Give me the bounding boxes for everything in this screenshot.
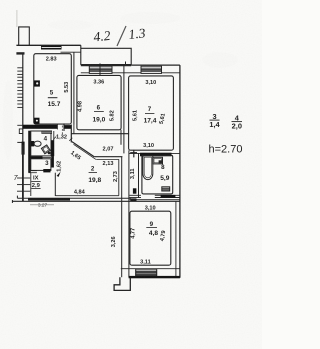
tick on left wall <box>17 124 23 126</box>
door sill black dash <box>130 198 136 201</box>
wall under balcony <box>81 64 131 66</box>
balcony <box>81 45 131 65</box>
bottom wall black <box>129 276 180 278</box>
left stair wall <box>22 53 24 201</box>
flat divider wall bottom <box>17 197 130 199</box>
bathtub <box>143 156 153 180</box>
vent room5 upper <box>34 80 40 86</box>
handwritten note 4.2/1.3 <box>93 25 147 44</box>
room 6 box <box>77 75 121 129</box>
room2 bottom box edge <box>55 195 118 197</box>
room9 fraction line <box>146 227 157 229</box>
arrow 1.62 <box>57 172 61 177</box>
room 3 box <box>31 159 51 171</box>
room5 fraction line <box>48 97 58 99</box>
bracket on left wall <box>19 129 23 134</box>
washing machine <box>162 187 170 191</box>
room2 right box edge <box>118 159 120 195</box>
room4 right wall black <box>51 140 54 156</box>
door stub corridor <box>133 188 137 193</box>
wall stub below room5/6 junction <box>70 125 72 143</box>
room 7 box <box>129 76 174 150</box>
room 9 box <box>130 211 171 265</box>
room IX left line <box>30 173 32 196</box>
door jamb ticks room5 <box>56 124 58 130</box>
sink room8 <box>153 157 163 164</box>
left wall lower thick part <box>22 145 24 201</box>
room 8 box <box>142 155 173 194</box>
right margin fraction 3/1.4 <box>209 112 220 129</box>
room8 left wall <box>138 154 140 199</box>
tick at hook <box>17 141 21 143</box>
ghost line top-left <box>16 10 18 27</box>
room4 right wall lines <box>53 131 55 156</box>
rooms4-3 left wall black <box>28 131 31 173</box>
inner wall face line <box>61 51 81 53</box>
room7 fraction line <box>145 112 154 114</box>
room8 bottom wall <box>129 194 141 196</box>
stair treads <box>17 68 23 108</box>
bottom wall inner line <box>121 268 180 270</box>
room 5 box <box>34 54 72 124</box>
top wall right section <box>131 64 180 66</box>
left wall top hook <box>16 52 24 54</box>
shaft top-left <box>19 27 30 45</box>
wall between 4 and 3 <box>31 156 43 158</box>
room3 bottom walls <box>29 170 37 172</box>
porch steps <box>114 277 130 290</box>
room6 bottom wall <box>71 133 129 135</box>
ticks 1.32 <box>53 137 56 140</box>
room2 diagonal wall <box>72 142 94 157</box>
room5 bottom wall black <box>23 125 58 129</box>
corridor walls <box>120 130 122 145</box>
room8 top wall black <box>140 153 172 157</box>
window room7 <box>141 66 162 73</box>
right outer wall <box>179 65 181 278</box>
window6 mullion tick <box>99 63 101 75</box>
top wall <box>16 44 80 46</box>
room6 fraction line <box>94 110 104 112</box>
cross ticks lower left wall <box>17 177 30 179</box>
thick hook left wall <box>22 142 25 155</box>
vent grille room4 <box>41 131 52 134</box>
IX area lines <box>31 181 40 183</box>
right margin fraction 4/2.0 <box>232 113 242 130</box>
room2 top wall <box>94 156 122 158</box>
inner face of top wall <box>81 72 180 74</box>
toilet <box>31 141 41 146</box>
room9 inner right wall <box>175 201 177 276</box>
room 4 box <box>31 131 51 156</box>
vent room5 lower <box>34 118 40 124</box>
window room5 <box>41 46 62 50</box>
room2 fraction line <box>89 172 97 174</box>
hall wall IX right <box>54 173 56 196</box>
sink room4 <box>41 145 50 154</box>
window jambs <box>135 269 137 277</box>
room5/room6 wall outer line <box>73 52 75 125</box>
wall room7 bottom <box>129 152 180 154</box>
room3 right wall black <box>51 156 54 167</box>
window room6 <box>89 66 112 73</box>
tick at wall junction <box>133 150 135 158</box>
extension line dashed <box>61 126 63 135</box>
handwritten slash <box>117 26 126 46</box>
wall rooms6/7 <box>123 65 125 153</box>
window room9 <box>136 270 157 276</box>
